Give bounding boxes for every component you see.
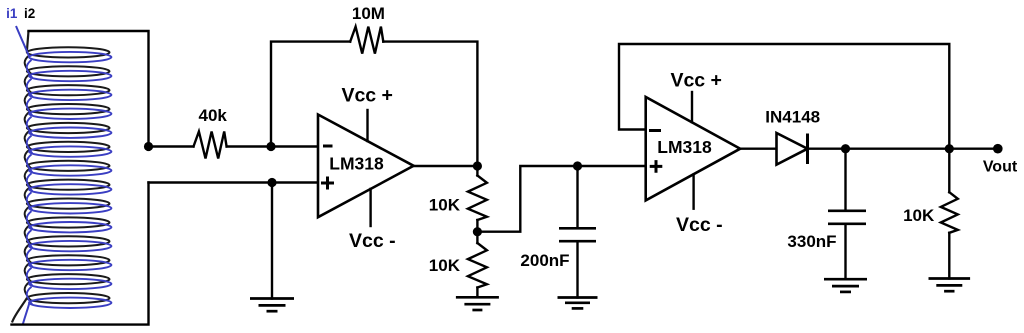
node C (ground tap on plus wire): [267, 178, 276, 187]
diode D1 cathode bar: [806, 134, 809, 165]
svg-text:Vcc +: Vcc +: [341, 85, 393, 107]
lead i1 top (blue): [16, 26, 29, 57]
U2 Vcc- pin: [692, 175, 694, 209]
svg-text:10M: 10M: [352, 4, 385, 23]
node B (feedback tap): [266, 142, 275, 151]
svg-text:330nF: 330nF: [787, 232, 836, 251]
wire feedback loop left: [271, 42, 350, 147]
wire U2 feedback loop: [619, 44, 949, 149]
resistor R5 10K: [941, 192, 958, 233]
diode D1 IN4148: [777, 133, 808, 165]
wire C2 to ground: [844, 225, 846, 279]
svg-text:10K: 10K: [429, 256, 461, 275]
U1 Vcc+ pin: [366, 110, 368, 141]
wire R4 to ground: [476, 288, 478, 298]
wire coil top to 40k node: [29, 31, 149, 147]
wire node G to C2: [844, 149, 846, 210]
svg-text:i1: i1: [6, 6, 18, 21]
lead i1 bottom (blue): [23, 303, 30, 325]
svg-text:Vcc -: Vcc -: [349, 230, 396, 252]
U2 plus symbol: [650, 160, 663, 173]
ground G2: [456, 296, 499, 299]
terminal Vout: [993, 144, 1003, 154]
svg-text:10K: 10K: [429, 196, 461, 215]
wire 40k left: [149, 145, 194, 147]
U1 minus symbol: [323, 145, 333, 148]
inductor L1 winding i1 crossover connectors: [27, 60, 33, 305]
U2 minus symbol: [649, 129, 661, 132]
svg-text:IN4148: IN4148: [765, 108, 820, 127]
wire plus input row: [149, 181, 319, 183]
lead i2 top: [27, 31, 29, 52]
U2 Vcc+ pin: [691, 92, 693, 122]
wire ground branch: [271, 183, 273, 299]
resistor R2 10M: [350, 27, 383, 54]
inductor L1 winding i1 (blue ellipses): [29, 52, 111, 308]
resistor R4 10K lower: [468, 243, 487, 288]
svg-text:10K: 10K: [903, 206, 935, 225]
wire output node to R3: [476, 166, 478, 176]
wire node F to C1: [576, 166, 578, 227]
op-amp U2 LM318: [646, 97, 741, 200]
wire diode to Vout terminal: [808, 147, 998, 149]
node D (U1 output): [473, 161, 482, 170]
ground G3: [558, 296, 598, 299]
resistor R3 10K upper: [468, 176, 487, 221]
wire feedback loop right: [383, 42, 477, 166]
svg-text:200nF: 200nF: [520, 251, 569, 270]
wire node H to R5: [948, 149, 950, 193]
wire node E to RC row: [477, 166, 645, 232]
ground G5: [929, 277, 971, 280]
svg-text:40k: 40k: [199, 106, 228, 125]
op-amp U1 LM318: [318, 115, 414, 218]
wire node E join: [476, 220, 478, 243]
U1 plus symbol: [321, 177, 334, 190]
node G (330nF tap): [841, 144, 850, 153]
U1 Vcc- pin: [369, 189, 371, 226]
svg-text:Vout: Vout: [983, 159, 1018, 176]
node F (200nF tap): [573, 161, 582, 170]
resistor R1 40k: [194, 132, 227, 159]
capacitor C1 200nF: [559, 228, 596, 241]
wire U1 output: [414, 165, 478, 167]
wire R5 to ground: [948, 233, 950, 279]
svg-text:Vcc +: Vcc +: [670, 70, 722, 92]
inductor L1 winding i2 (black ellipses): [27, 47, 110, 303]
svg-text:LM318: LM318: [329, 154, 384, 174]
node H (feedback R5 tap): [945, 144, 954, 153]
svg-text:Vcc -: Vcc -: [676, 214, 723, 236]
node E (divider middle): [473, 227, 482, 236]
svg-text:i2: i2: [24, 6, 35, 21]
wire C1 to ground: [576, 243, 578, 298]
svg-text:LM318: LM318: [657, 137, 712, 157]
lead i2 bottom: [12, 298, 27, 322]
inductor L1 winding i2 crossover connectors: [25, 55, 31, 300]
capacitor C2 330nF: [828, 211, 866, 224]
ground G4: [824, 278, 867, 281]
ground G1: [250, 297, 294, 300]
wire 40k right to minus input: [227, 145, 318, 147]
wire U2 output to diode: [740, 147, 776, 149]
wire coil bottom to plus row: [12, 183, 149, 325]
node A (40k left): [144, 142, 153, 151]
